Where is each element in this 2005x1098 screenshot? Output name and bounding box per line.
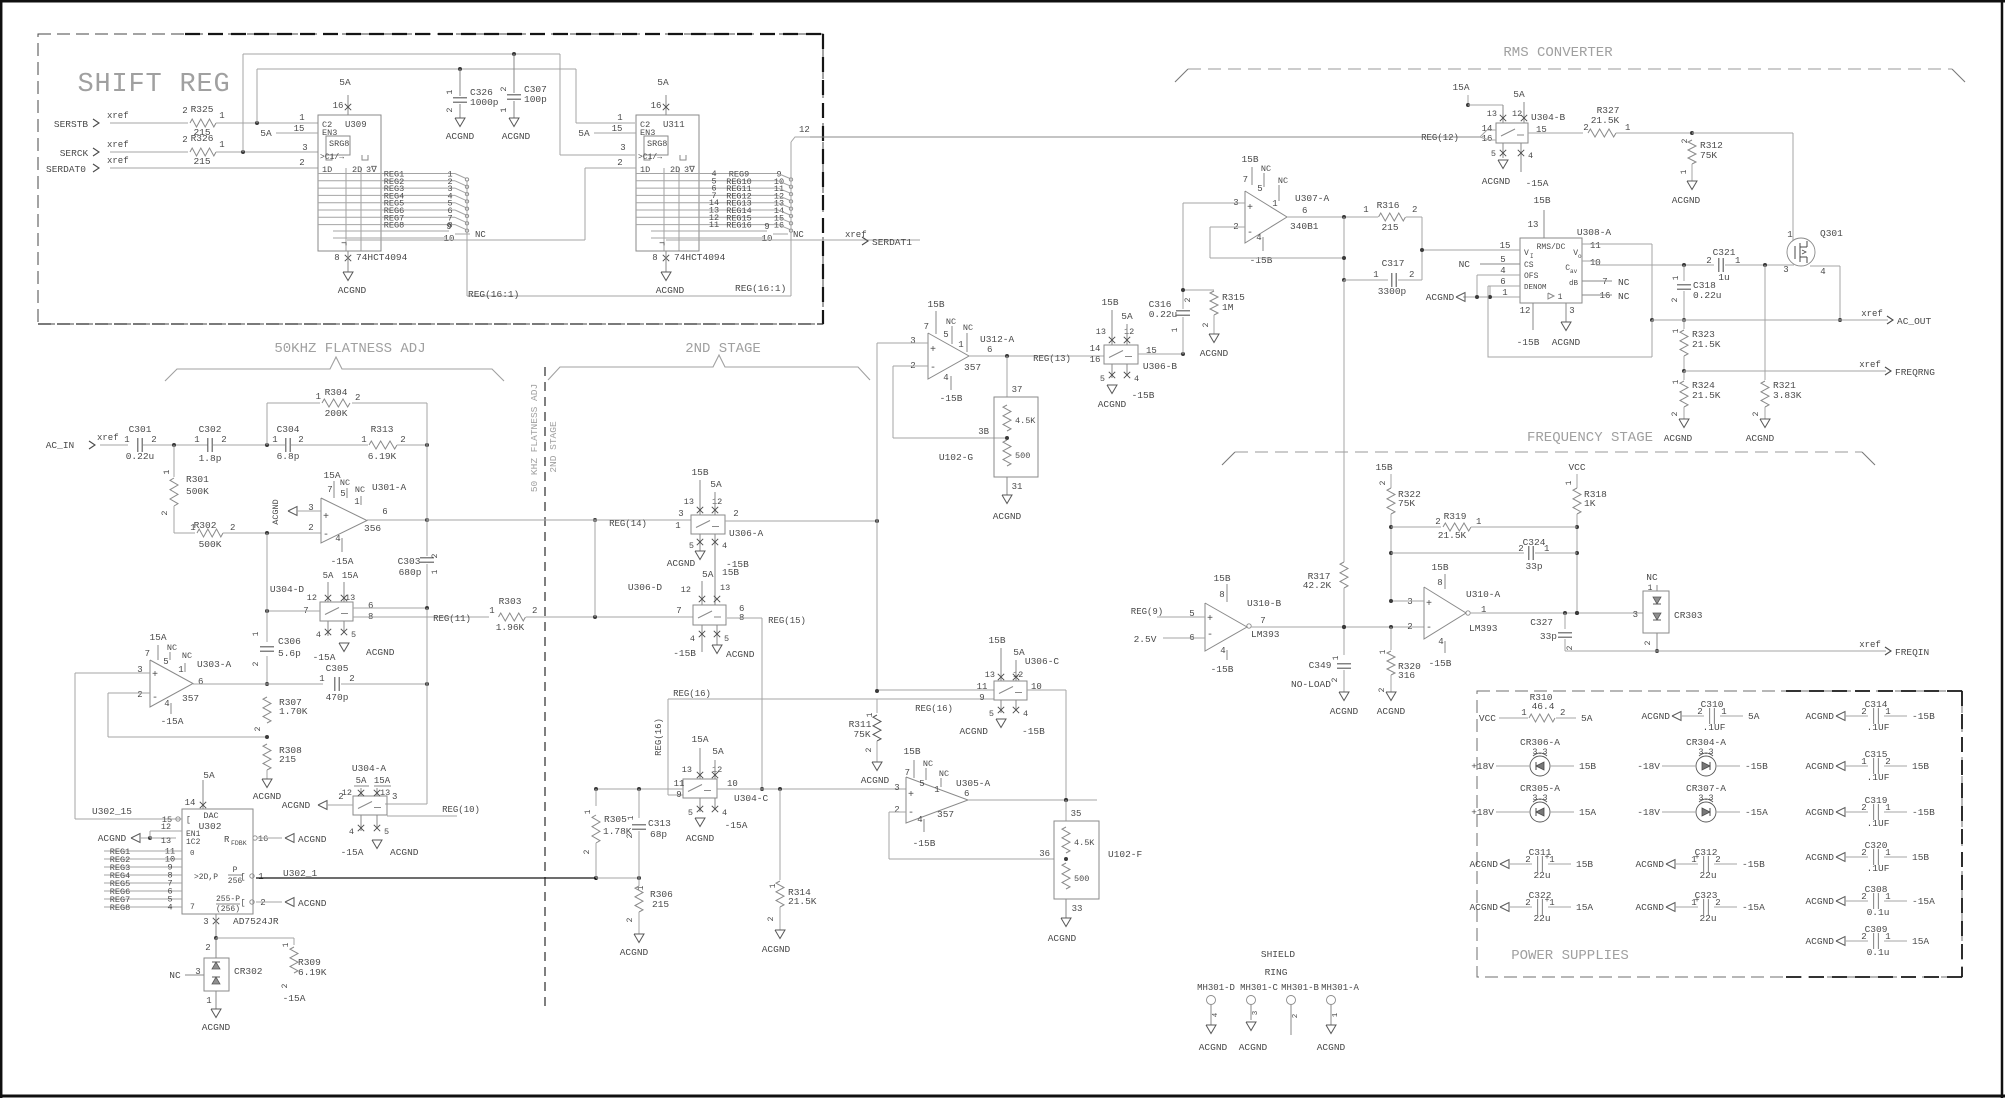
svg-text:1u: 1u (1718, 272, 1729, 283)
svg-text:3: 3 (1569, 306, 1574, 316)
svg-text:7: 7 (190, 903, 195, 912)
svg-text:1: 1 (445, 89, 455, 94)
svg-text:2: 2 (626, 833, 635, 838)
svg-text:NC: NC (169, 970, 181, 981)
op-amp U312-A (910, 299, 1014, 404)
svg-text:U102-G: U102-G (939, 452, 974, 463)
resistor R326 (182, 133, 224, 167)
svg-text:13: 13 (345, 593, 355, 603)
svg-text:xref: xref (1859, 640, 1881, 650)
svg-text:+18V: +18V (1471, 807, 1494, 818)
transistor Q301 (1783, 133, 1843, 277)
svg-text:1.8p: 1.8p (199, 453, 222, 464)
svg-text:4: 4 (1212, 1012, 1220, 1017)
svg-text:2: 2 (767, 916, 776, 921)
switch U304-B (1452, 82, 1565, 189)
svg-text:2: 2 (182, 135, 187, 145)
svg-text:.1UF: .1UF (1867, 818, 1890, 829)
svg-text:U306-D: U306-D (628, 582, 663, 593)
svg-text:2: 2 (1671, 297, 1680, 302)
resistor R303 (489, 596, 537, 633)
dac U302 pin16 RFDBK (253, 834, 327, 846)
svg-text:13: 13 (682, 765, 692, 775)
svg-text:5: 5 (1100, 374, 1105, 384)
svg-text:2: 2 (1518, 544, 1523, 554)
svg-text:16: 16 (651, 101, 662, 111)
svg-text:1: 1 (1521, 708, 1526, 718)
wire into U304-C (594, 787, 683, 791)
svg-text:.1UF: .1UF (1867, 772, 1890, 783)
svg-text:1: 1 (206, 996, 211, 1006)
svg-text:ACGND: ACGND (667, 558, 696, 569)
svg-text:-: - (1247, 228, 1253, 239)
resistor R312 (1680, 138, 1723, 181)
svg-text:4: 4 (1134, 374, 1139, 384)
svg-text:1M: 1M (1222, 302, 1234, 313)
svg-text:ACGND: ACGND (298, 898, 327, 909)
svg-text:2: 2 (617, 158, 622, 168)
op-amp U303-A (137, 632, 231, 727)
svg-text:U310-A: U310-A (1466, 589, 1501, 600)
svg-text:100p: 100p (524, 94, 547, 105)
ground below R315 (1200, 334, 1229, 359)
svg-text:U304-C: U304-C (734, 793, 769, 804)
svg-text:2: 2 (445, 107, 455, 112)
svg-text:ACGND: ACGND (202, 1022, 231, 1033)
diode CR305-A (1471, 783, 1596, 822)
svg-text:ACGND: ACGND (1805, 852, 1834, 863)
svg-text:I: I (1530, 253, 1534, 260)
svg-text:2: 2 (1861, 848, 1866, 858)
net AC_OUT (1652, 309, 1932, 327)
svg-text:3: 3 (1407, 597, 1412, 607)
ic U308 pin16 (1582, 291, 1630, 302)
svg-text:3: 3 (203, 917, 208, 927)
svg-text:-15B: -15B (1022, 726, 1045, 737)
svg-text:75K: 75K (1398, 498, 1415, 509)
svg-text:-15A: -15A (331, 556, 354, 567)
svg-text:4: 4 (164, 699, 169, 709)
resistor R320 (1378, 627, 1421, 692)
svg-text:1: 1 (934, 785, 939, 795)
svg-text:22u: 22u (1533, 913, 1550, 924)
wire (110, 151, 188, 153)
power supplies dashed border (1477, 691, 1962, 977)
svg-text:12: 12 (681, 585, 691, 595)
svg-text:1K: 1K (1584, 498, 1596, 509)
wire (213, 443, 285, 447)
svg-text:500: 500 (1015, 451, 1030, 461)
resistor R308 (263, 744, 302, 779)
svg-text:C320: C320 (1865, 840, 1888, 851)
wire (110, 122, 188, 124)
svg-text:NC: NC (355, 485, 365, 495)
svg-text:10: 10 (727, 779, 738, 789)
wire (1616, 131, 1793, 135)
svg-text:AD7524JR: AD7524JR (233, 916, 279, 927)
svg-text:-15B: -15B (673, 648, 696, 659)
svg-text:>2D,P: >2D,P (194, 873, 218, 882)
svg-text:ACGND: ACGND (390, 847, 419, 858)
svg-text:68p: 68p (650, 829, 667, 840)
svg-text:REG8: REG8 (110, 903, 130, 913)
svg-text:1: 1 (319, 674, 324, 684)
svg-text:200K: 200K (325, 408, 348, 419)
switch U304-D (270, 571, 395, 663)
svg-text:8: 8 (1219, 590, 1224, 600)
diode pack CR303 (1633, 572, 1703, 653)
svg-text:ACGND: ACGND (1635, 859, 1664, 870)
wire U307 +input (1183, 203, 1245, 308)
svg-text:1: 1 (627, 815, 636, 820)
svg-text:15B: 15B (691, 467, 708, 478)
svg-text:2: 2 (1861, 803, 1866, 813)
wire U308 feedback loop (1488, 244, 1652, 357)
capacitor C313 (626, 789, 671, 878)
svg-text:7: 7 (676, 606, 681, 616)
svg-text:ACGND: ACGND (1377, 706, 1406, 717)
wire U310-A out (1470, 611, 1643, 615)
resistor R306 (626, 878, 673, 934)
svg-text:ACGND: ACGND (446, 131, 475, 142)
svg-text:5: 5 (989, 709, 994, 719)
svg-text:xref: xref (1861, 309, 1883, 319)
svg-text:C303: C303 (398, 556, 421, 567)
svg-text:12: 12 (1520, 306, 1531, 316)
svg-text:.1UF: .1UF (1703, 722, 1726, 733)
svg-text:215: 215 (1381, 222, 1398, 233)
svg-text:680p: 680p (399, 567, 422, 578)
wire U305 feedback (889, 812, 1054, 859)
svg-text:-: - (152, 693, 158, 704)
svg-text:1: 1 (190, 523, 195, 533)
svg-text:ACGND: ACGND (1552, 337, 1581, 348)
svg-text:ACGND: ACGND (1641, 711, 1670, 722)
svg-text:1: 1 (272, 435, 277, 445)
svg-text:12: 12 (307, 593, 317, 603)
svg-text:¬: ¬ (659, 239, 665, 250)
svg-text:340B1: 340B1 (1290, 221, 1319, 232)
svg-text:9: 9 (446, 222, 451, 232)
bracket 2nd stage (548, 355, 870, 380)
svg-text:5: 5 (1491, 149, 1496, 159)
switch U304-C (674, 734, 769, 844)
svg-text:1: 1 (252, 631, 261, 636)
resistor R314 (767, 789, 817, 930)
svg-text:15B: 15B (1912, 761, 1929, 772)
svg-text:37: 37 (1012, 385, 1023, 395)
shield ring post MH301-A (1317, 996, 1346, 1054)
dac U302 pins 12 13 acgnd (98, 822, 182, 846)
svg-text:2ND STAGE: 2ND STAGE (548, 421, 559, 473)
svg-text:C315: C315 (1865, 749, 1888, 760)
svg-text:15B: 15B (903, 746, 920, 757)
svg-text:2: 2 (1560, 708, 1565, 718)
svg-text:5: 5 (688, 808, 693, 818)
svg-text:10: 10 (1590, 258, 1601, 268)
svg-text:9: 9 (979, 693, 984, 703)
wire U312 output (969, 354, 1104, 364)
svg-text:4: 4 (917, 815, 922, 825)
svg-text:ACGND: ACGND (861, 775, 890, 786)
svg-text:ACGND: ACGND (656, 285, 685, 296)
wire U303 +input (75, 673, 150, 819)
svg-text:SERDAT0: SERDAT0 (46, 164, 86, 175)
svg-text:1: 1 (584, 809, 593, 814)
ground below R306 (620, 934, 649, 958)
svg-text:1: 1 (361, 435, 366, 445)
svg-text:4: 4 (943, 373, 948, 383)
wire U303 -input feedback (108, 693, 269, 739)
svg-text:2: 2 (1697, 707, 1702, 717)
wire REG(10) (387, 805, 480, 816)
title RMS CONVERTER (1503, 45, 1613, 61)
svg-text:5A: 5A (1513, 89, 1525, 100)
svg-text:C349: C349 (1309, 660, 1332, 671)
svg-text:1: 1 (299, 113, 304, 123)
svg-text:-: - (930, 363, 936, 374)
net FREQRNG (1684, 360, 1935, 378)
svg-text:15B: 15B (988, 635, 1005, 646)
svg-text:2: 2 (733, 509, 738, 519)
capacitor C305 (267, 663, 429, 703)
svg-text:REG(11): REG(11) (433, 614, 471, 624)
svg-text:NC: NC (1646, 572, 1658, 583)
wire feedback right (426, 445, 428, 520)
svg-text:NC: NC (1618, 291, 1630, 302)
dac U302 pin1 out (241, 868, 318, 882)
capacitor C317 (1342, 217, 1422, 297)
svg-text:ACGND: ACGND (1200, 348, 1229, 359)
svg-text:1: 1 (1672, 379, 1681, 384)
svg-text:ACGND: ACGND (1469, 859, 1498, 870)
svg-text:5: 5 (689, 541, 694, 551)
svg-text:SHIELD: SHIELD (1261, 949, 1296, 960)
svg-text:3300p: 3300p (1378, 286, 1407, 297)
resistor R325 (182, 104, 224, 138)
svg-text:-15B: -15B (1912, 807, 1935, 818)
svg-text:NC: NC (1278, 176, 1288, 186)
svg-text:C319: C319 (1865, 795, 1888, 806)
shift register U311 (578, 77, 804, 296)
ground below R321 (1746, 419, 1775, 444)
svg-text:1: 1 (1672, 328, 1681, 333)
shield ring title (1261, 949, 1296, 978)
svg-text:5A: 5A (1121, 311, 1133, 322)
svg-text:SERDAT1: SERDAT1 (872, 237, 912, 248)
svg-text:-15A: -15A (1742, 902, 1765, 913)
svg-text:.1UF: .1UF (1867, 863, 1890, 874)
svg-text:DAC: DAC (203, 811, 218, 821)
svg-text:RMS CONVERTER: RMS CONVERTER (1503, 45, 1613, 61)
resistor R321 (1752, 265, 1802, 419)
svg-text:1: 1 (1861, 757, 1866, 767)
svg-text:5A: 5A (339, 77, 351, 88)
svg-text:V: V (1524, 249, 1529, 258)
svg-text:+: + (1545, 853, 1550, 862)
svg-text:22u: 22u (1699, 870, 1716, 881)
svg-text:1: 1 (431, 569, 440, 574)
svg-text:0: 0 (190, 850, 195, 858)
svg-text:C313: C313 (648, 818, 671, 829)
svg-text:U309: U309 (345, 120, 367, 130)
svg-text:RMS/DC: RMS/DC (1537, 243, 1566, 252)
svg-text:-15B: -15B (1429, 658, 1452, 669)
ic U308 pin7 (1582, 277, 1630, 288)
svg-text:15B: 15B (1213, 573, 1230, 584)
svg-text:215: 215 (193, 156, 210, 167)
wire U310-B out (1251, 625, 1424, 629)
bracket 50khz (165, 357, 504, 381)
svg-text:DENOM: DENOM (1524, 284, 1547, 292)
svg-text:3.3: 3.3 (1532, 747, 1547, 757)
svg-text:+: + (1695, 896, 1700, 905)
ic U308 pin6 (1490, 277, 1520, 297)
svg-text:15B: 15B (1912, 852, 1929, 863)
svg-text:+: + (908, 790, 914, 801)
svg-text:U302_1: U302_1 (283, 868, 318, 879)
svg-text:U301-A: U301-A (372, 482, 407, 493)
svg-text:15B: 15B (1579, 761, 1596, 772)
ic U308 pin12 (1517, 303, 1540, 348)
svg-text:C306: C306 (278, 636, 301, 647)
svg-text:R: R (224, 835, 230, 845)
svg-text:RING: RING (1265, 967, 1288, 978)
svg-text:ACGND: ACGND (1635, 902, 1664, 913)
svg-text:6: 6 (987, 345, 992, 355)
resistor R317 (1303, 562, 1348, 655)
ic U308 pin15 (1420, 241, 1520, 252)
net flag SERSTB (54, 111, 129, 130)
wire U310-A +input (1389, 599, 1424, 603)
svg-text:7: 7 (327, 485, 332, 495)
svg-text:av: av (1570, 268, 1578, 275)
svg-text:NC: NC (963, 323, 973, 333)
svg-text:1: 1 (1680, 169, 1689, 174)
wire (216, 150, 318, 154)
svg-text:-15A: -15A (313, 652, 336, 663)
svg-text:50KHZ FLATNESS ADJ: 50KHZ FLATNESS ADJ (274, 341, 425, 357)
svg-text:C305: C305 (326, 663, 349, 674)
svg-text:1: 1 (769, 883, 778, 888)
svg-text:5: 5 (1257, 184, 1262, 194)
svg-text:C302: C302 (199, 424, 222, 435)
svg-text:1: 1 (219, 140, 224, 150)
svg-text:2: 2 (1184, 297, 1193, 302)
svg-text:5: 5 (724, 634, 729, 644)
svg-text:5A: 5A (260, 128, 272, 139)
svg-text:5A: 5A (578, 128, 590, 139)
wire U312 feedback (893, 366, 1007, 438)
svg-text:5A: 5A (323, 571, 334, 581)
svg-text:VCC: VCC (1568, 462, 1585, 473)
resistor network U102-F (1039, 800, 1142, 944)
svg-text:+: + (323, 512, 329, 523)
wire SERDAT1 out (666, 230, 920, 248)
svg-text:2: 2 (1525, 898, 1530, 908)
net flag SERDAT0 (46, 156, 129, 175)
wire REG(9) (1131, 607, 1205, 617)
svg-text:NC: NC (1618, 277, 1630, 288)
ic U308 pin5 (1459, 255, 1520, 270)
svg-text:2: 2 (281, 983, 290, 988)
svg-text:U306-B: U306-B (1143, 361, 1178, 372)
svg-text:16: 16 (333, 101, 344, 111)
svg-text:ACGND: ACGND (271, 499, 281, 525)
wire R303 to U306-D (526, 615, 693, 619)
svg-text:21.5K: 21.5K (1692, 390, 1721, 401)
svg-text:4: 4 (1256, 233, 1261, 243)
svg-text:REG(15): REG(15) (768, 616, 806, 626)
svg-text:1: 1 (1476, 517, 1481, 527)
svg-text:C317: C317 (1382, 258, 1405, 269)
svg-text:2: 2 (254, 726, 263, 731)
svg-text:-15B: -15B (1132, 390, 1155, 401)
svg-text:U304-D: U304-D (270, 584, 305, 595)
wire U304-C out (717, 787, 906, 791)
svg-text:C324: C324 (1523, 537, 1546, 548)
ground ACGND below C307 (502, 118, 531, 142)
wire U306-B out (1138, 352, 1185, 356)
svg-text:-15B: -15B (1912, 711, 1935, 722)
svg-text:12: 12 (1512, 109, 1522, 119)
svg-text:22u: 22u (1533, 870, 1550, 881)
capacitor C322 (1469, 890, 1593, 924)
svg-text:REG(10): REG(10) (442, 805, 480, 815)
svg-text:255-P: 255-P (216, 895, 240, 904)
svg-text:3B: 3B (978, 427, 989, 437)
svg-text:15A: 15A (149, 632, 166, 643)
svg-text:1: 1 (124, 435, 129, 445)
svg-text:7: 7 (905, 768, 910, 778)
capacitor C308 (1805, 884, 1935, 918)
switch U306-B (1090, 297, 1178, 410)
svg-text:2.5V: 2.5V (1134, 634, 1157, 645)
svg-text:C309: C309 (1865, 924, 1888, 935)
svg-text:-18V: -18V (1637, 807, 1660, 818)
svg-text:2: 2 (1379, 480, 1388, 485)
svg-text:C301: C301 (129, 424, 152, 435)
svg-text:1: 1 (1787, 230, 1792, 240)
svg-text:1: 1 (316, 392, 321, 402)
svg-text:xref: xref (1859, 360, 1881, 370)
svg-text:REG8: REG8 (384, 221, 404, 231)
capacitor C307 (499, 54, 547, 118)
wire U307 output (1287, 215, 1378, 219)
svg-text:dB: dB (1569, 280, 1579, 288)
op-amp U305-A (894, 746, 990, 849)
svg-text:U310-B: U310-B (1247, 598, 1282, 609)
wire vertical to U304-A (385, 608, 427, 804)
svg-text:ACGND: ACGND (993, 511, 1022, 522)
svg-text:2: 2 (1861, 707, 1866, 717)
svg-text:FREQRNG: FREQRNG (1895, 367, 1935, 378)
resistor R322 (1375, 462, 1421, 601)
svg-text:FREQIN: FREQIN (1895, 647, 1929, 658)
svg-text:NC: NC (793, 230, 804, 240)
svg-text:NC: NC (167, 643, 177, 653)
svg-text:REG(16:1): REG(16:1) (468, 289, 519, 300)
svg-text:ACGND: ACGND (1672, 195, 1701, 206)
svg-text:C304: C304 (277, 424, 300, 435)
svg-text:357: 357 (182, 693, 199, 704)
svg-text:7: 7 (924, 322, 929, 332)
svg-text:-18V: -18V (1637, 761, 1660, 772)
svg-text:2: 2 (1583, 123, 1588, 133)
svg-text:R326: R326 (191, 133, 214, 144)
svg-text:2: 2 (865, 747, 874, 752)
svg-text:5A: 5A (710, 479, 722, 490)
